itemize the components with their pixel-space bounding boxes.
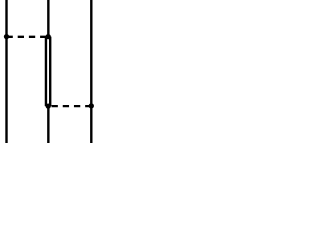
- vertex dot lower middle: [46, 103, 51, 108]
- middle nucleon line lower segment: [47, 106, 49, 143]
- intermediate state double line left: [45, 37, 47, 107]
- middle nucleon line upper segment: [47, 0, 49, 37]
- upper meson exchange dashed line: [7, 36, 49, 38]
- lower meson exchange dashed line: [48, 105, 91, 107]
- vertex dot lower right: [89, 103, 94, 108]
- intermediate state double line right: [49, 37, 51, 107]
- vertex dot upper left: [4, 34, 9, 39]
- right nucleon line: [90, 0, 92, 143]
- left nucleon line: [5, 0, 7, 143]
- vertex dot upper middle: [46, 34, 51, 39]
